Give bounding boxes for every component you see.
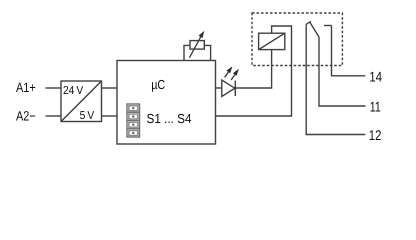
relay pole wire to terminal 11 <box>319 37 365 106</box>
svg-text:24 V: 24 V <box>63 85 83 97</box>
svg-text:S1 ... S4: S1 ... S4 <box>147 111 192 126</box>
wire LED to relay coil <box>235 50 271 88</box>
relay contact NC fixed line to terminal 12 <box>306 24 365 134</box>
power supply diagonal <box>61 81 102 122</box>
relay dashed enclosure <box>252 13 342 66</box>
NC contact tick <box>306 21 311 24</box>
trimmer potentiometer body <box>190 41 204 50</box>
DIP switch S1-S4 icon <box>127 104 140 137</box>
svg-text:14: 14 <box>369 69 382 85</box>
LED light arrow 2 <box>231 74 235 80</box>
svg-text:11: 11 <box>370 98 381 114</box>
wire supply to uC (top) <box>102 87 118 89</box>
power supply 24V to 5V converter box <box>61 81 102 122</box>
wire A1 to power supply <box>46 87 62 89</box>
wire coil top loop back to uC <box>216 26 292 116</box>
trimmer arrow <box>189 36 201 57</box>
trimmer potentiometer plinth on top of uC box <box>184 45 211 60</box>
svg-text:12: 12 <box>369 127 382 143</box>
svg-text:5 V: 5 V <box>80 110 95 122</box>
svg-text:A2−: A2− <box>16 109 36 124</box>
LED junction dot <box>234 87 237 90</box>
svg-text:A1+: A1+ <box>16 80 36 95</box>
LED triangle <box>222 80 235 97</box>
svg-text:µC: µC <box>151 77 165 92</box>
relay coil diagonal <box>259 33 285 49</box>
relay NO contact hook <box>324 25 332 27</box>
LED cathode bar <box>234 81 236 97</box>
wire uC to LED <box>216 87 222 89</box>
microcontroller box <box>117 61 216 145</box>
wire supply to uC (bottom) <box>102 115 118 117</box>
wire NO contact to terminal 14 <box>332 26 366 76</box>
wire A2 to power supply <box>46 115 62 117</box>
LED light arrow 1 <box>225 72 229 78</box>
relay coil <box>259 33 285 49</box>
relay contact blade <box>310 23 319 38</box>
